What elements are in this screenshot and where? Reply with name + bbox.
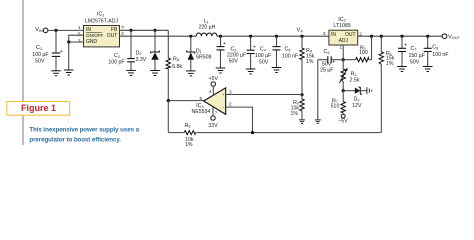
svg-text:150 µF: 150 µF — [409, 53, 425, 59]
svg-text:2: 2 — [229, 101, 232, 106]
wire op-amp output to bottom rail — [167, 101, 169, 133]
resistor R4 15k — [301, 36, 303, 48]
svg-text:100 pF: 100 pF — [108, 60, 124, 66]
svg-text:LT1085: LT1085 — [333, 23, 350, 29]
Figure 1 box — [7, 102, 70, 116]
svg-text:2: 2 — [121, 31, 124, 36]
wire L1 to IC2 — [217, 35, 329, 37]
svg-text:50V: 50V — [259, 59, 269, 65]
svg-text:33V: 33V — [208, 123, 218, 129]
svg-text:D3: D3 — [353, 97, 359, 103]
svg-text:C8: C8 — [432, 45, 438, 51]
pin 2 inverting input wire — [226, 107, 253, 133]
svg-text:1%: 1% — [306, 59, 314, 65]
svg-text:C6: C6 — [324, 49, 330, 55]
svg-text:100 nF: 100 nF — [432, 52, 448, 58]
svg-text:VA: VA — [297, 28, 304, 34]
svg-text:3: 3 — [229, 90, 232, 95]
node junction C1 — [54, 29, 57, 32]
ground sideways — [367, 87, 372, 94]
svg-text:Figure 1: Figure 1 — [21, 103, 56, 113]
ground small — [315, 120, 321, 124]
svg-text:ON/OFF: ON/OFF — [86, 33, 104, 38]
svg-text:IC1: IC1 — [97, 12, 104, 18]
svg-text:12V: 12V — [352, 103, 362, 109]
capacitor C7 150uF — [401, 36, 403, 48]
svg-text:3.3V: 3.3V — [136, 57, 147, 63]
wire OUT rail — [120, 35, 197, 37]
svg-text:SR508: SR508 — [196, 54, 212, 60]
svg-text:50V: 50V — [322, 61, 332, 67]
svg-text:1: 1 — [78, 25, 81, 30]
capacitor C1 — [55, 30, 57, 53]
svg-text:2: 2 — [359, 31, 362, 36]
pin 3 noninverting input wire — [226, 94, 302, 96]
svg-text:50V: 50V — [35, 58, 45, 64]
svg-text:This inexpensive power supply: This inexpensive power supply uses a — [29, 126, 139, 133]
ground — [397, 67, 407, 72]
svg-text:+5V: +5V — [209, 76, 219, 82]
capacitor C8 100nF — [427, 36, 429, 48]
ground — [51, 71, 61, 76]
svg-text:510: 510 — [331, 103, 340, 109]
svg-text:D2: D2 — [136, 50, 142, 56]
svg-text:VOUT: VOUT — [448, 34, 460, 40]
pin 7 V+ supply — [212, 107, 214, 116]
op-amp IC3 NE5534 — [204, 88, 226, 115]
svg-text:preregulator to boost efficien: preregulator to boost efficiency. — [29, 137, 121, 144]
svg-text:GND: GND — [86, 39, 98, 45]
resistor R3 10k — [300, 95, 304, 111]
ground — [423, 67, 433, 72]
svg-text:C2: C2 — [114, 53, 120, 59]
resistor R1 100 — [343, 59, 355, 61]
svg-text:5: 5 — [78, 32, 81, 37]
inductor L1 220uH — [196, 33, 217, 36]
node Vin terminal — [43, 28, 48, 33]
wire bottom rail — [195, 132, 381, 134]
ground — [186, 71, 196, 76]
svg-text:C3: C3 — [231, 47, 237, 53]
potentiometer R2 2.5k — [342, 60, 344, 69]
svg-text:2.5k: 2.5k — [350, 77, 360, 83]
svg-text:C1: C1 — [36, 45, 42, 51]
regulator IC1 LM2576T-ADJ — [84, 26, 120, 47]
svg-text:220 µH: 220 µH — [199, 24, 216, 30]
svg-text:−5V: −5V — [338, 119, 348, 125]
ground small — [299, 120, 305, 124]
wire FB rail — [120, 29, 169, 31]
svg-text:NE5534: NE5534 — [192, 109, 211, 115]
wire OUT of IC2 to Vout — [358, 35, 443, 37]
svg-text:R6: R6 — [173, 56, 179, 62]
capacitor C2 — [130, 30, 132, 58]
svg-text:VIN: VIN — [35, 27, 43, 33]
capacitor C3 2200uF — [220, 36, 222, 46]
ground — [272, 68, 282, 73]
regulator IC2 LT1085 — [329, 30, 358, 45]
pin 4 V- supply — [212, 86, 214, 95]
svg-text:R8: R8 — [185, 123, 191, 129]
svg-text:+: + — [60, 49, 63, 55]
pin 6 output wire — [168, 100, 203, 102]
wire Vin to IC1 IN — [48, 29, 84, 31]
node Vout terminal — [442, 34, 447, 39]
svg-text:100 µF: 100 µF — [32, 52, 48, 58]
svg-text:50V: 50V — [410, 59, 420, 65]
resistor R6 6.8k — [167, 30, 169, 58]
wire ADJ — [342, 45, 344, 60]
svg-text:6: 6 — [199, 96, 202, 101]
diode D1 SR508 — [190, 36, 192, 52]
svg-text:4: 4 — [209, 89, 212, 94]
svg-text:OUT: OUT — [107, 33, 118, 39]
svg-text:100: 100 — [359, 50, 368, 56]
ground — [246, 69, 256, 74]
sidebar rule — [22, 0, 24, 101]
ground — [150, 71, 160, 76]
capacitor C5 100nF — [276, 36, 278, 46]
svg-text:C7: C7 — [411, 46, 417, 52]
capacitor C4 100uF — [250, 36, 252, 50]
svg-text:50V: 50V — [229, 59, 239, 65]
svg-text:+: + — [332, 60, 335, 66]
svg-text:25 µF: 25 µF — [320, 67, 333, 73]
zener D2 3.3V — [154, 30, 156, 52]
zener D3 12V — [343, 90, 355, 92]
svg-text:1%: 1% — [291, 111, 299, 117]
svg-text:100 nF: 100 nF — [282, 53, 298, 59]
svg-text:ADJ: ADJ — [339, 38, 349, 44]
svg-text:+: + — [404, 42, 407, 48]
svg-text:100 µF: 100 µF — [255, 53, 271, 59]
ground — [64, 70, 74, 75]
svg-text:IN: IN — [331, 32, 336, 38]
resistor R8 10k — [184, 131, 195, 135]
svg-text:3: 3 — [323, 31, 326, 36]
ground — [126, 70, 136, 75]
capacitor C6 25uF — [331, 59, 343, 61]
svg-text:3: 3 — [78, 39, 81, 44]
svg-text:1: 1 — [339, 45, 342, 50]
svg-text:1%: 1% — [386, 61, 394, 67]
resistor R7 510 — [342, 91, 344, 102]
svg-text:6.8k: 6.8k — [172, 64, 182, 70]
ground — [216, 68, 226, 73]
wire ON/OFF + GND tie — [69, 35, 84, 42]
resistor R5 15k — [380, 36, 382, 52]
svg-text:7: 7 — [215, 110, 218, 115]
svg-text:+: + — [223, 41, 226, 47]
svg-text:+: + — [253, 45, 256, 51]
svg-text:C5: C5 — [285, 47, 291, 53]
svg-text:LM2576T-ADJ: LM2576T-ADJ — [85, 18, 119, 24]
svg-text:C4: C4 — [260, 47, 266, 53]
svg-text:4: 4 — [121, 25, 124, 30]
svg-text:1%: 1% — [185, 142, 193, 148]
